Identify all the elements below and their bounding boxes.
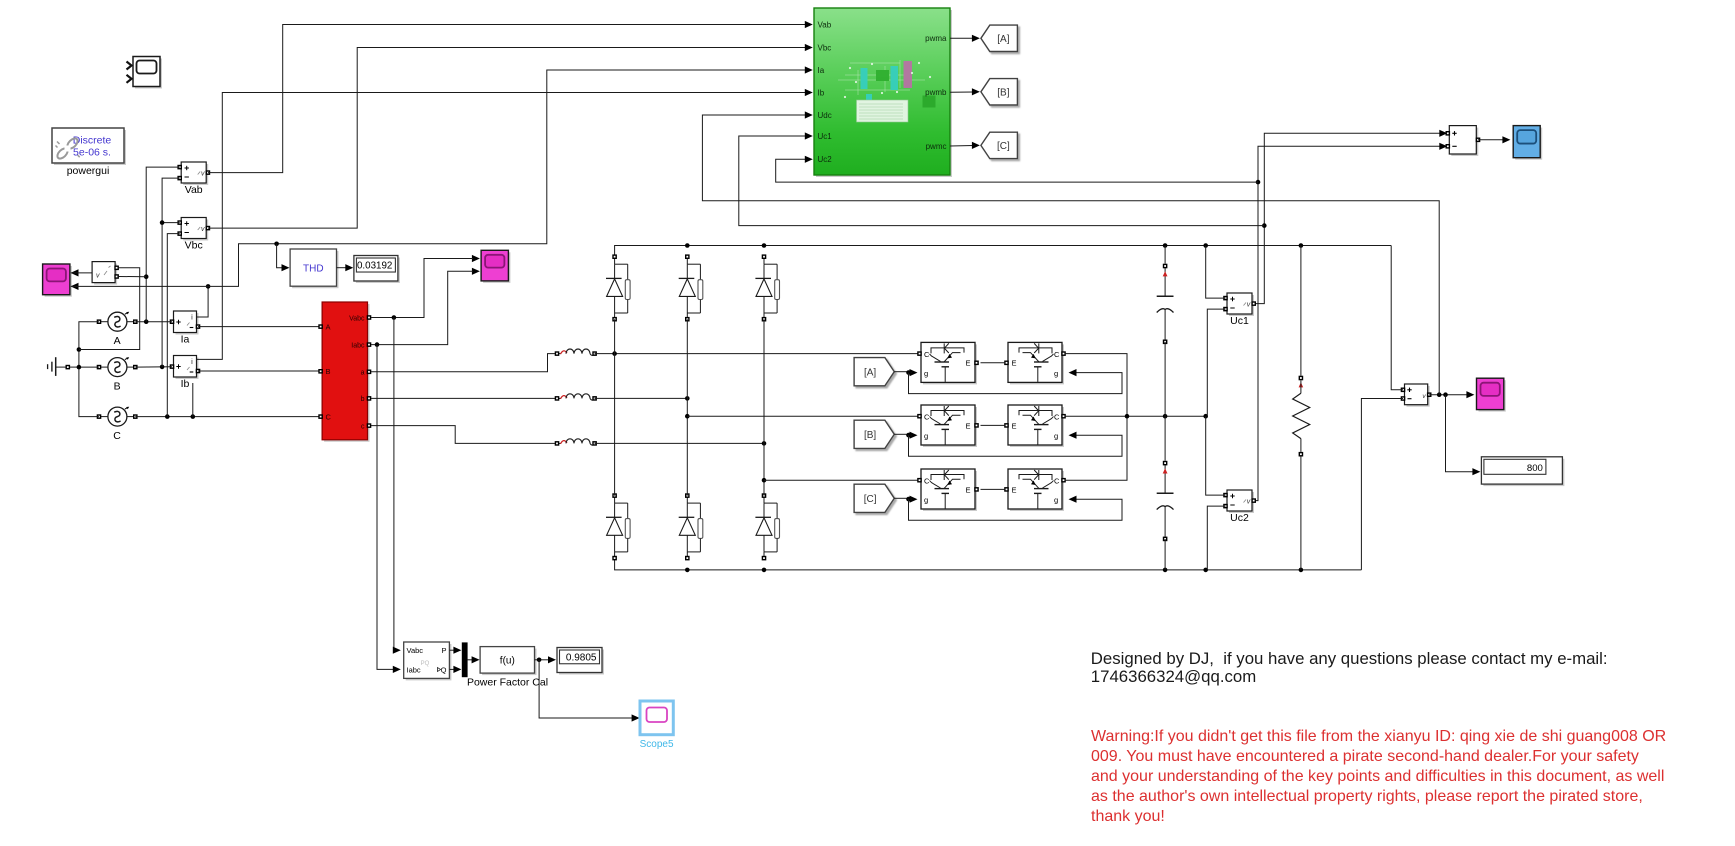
wire Udc signal [1429, 391, 1474, 398]
bridge column 3 wire [762, 319, 767, 495]
wire P to mux [449, 647, 461, 654]
subtract block Uc1-Uc2 [1446, 126, 1481, 156]
wire Udc to display 800 [1446, 395, 1481, 476]
wire pwmb to Goto B [950, 88, 980, 95]
display Udc value 800 [1481, 457, 1564, 486]
Goto tag C [981, 132, 1018, 158]
inductor La [555, 349, 597, 356]
capacitor C1 (upper) [1157, 264, 1174, 344]
svg-text:pwma: pwma [925, 34, 947, 43]
svg-text:g: g [1054, 496, 1058, 505]
Goto tag A [981, 25, 1018, 51]
svg-text:C: C [326, 413, 332, 422]
wire v minus to phase A [119, 276, 146, 278]
wire source A to Ia [135, 319, 172, 324]
svg-text:P: P [441, 646, 446, 655]
svg-text:Ib: Ib [181, 378, 190, 390]
diode D6 bottom (with snubber) [755, 493, 779, 560]
ports Uc1 [1223, 296, 1256, 312]
svg-text:[C]: [C] [997, 141, 1010, 152]
svg-text:C: C [924, 350, 930, 359]
IGBT Q4 (phase B right) [1004, 405, 1066, 447]
wire column 2 to IGBT row B [687, 415, 921, 417]
svg-text:g: g [1054, 369, 1058, 378]
wire Vab minus / Vbc plus to phase B [160, 178, 180, 367]
wire red c to inductor Lc [371, 426, 555, 444]
svg-text:C: C [924, 413, 930, 422]
wire Lb to bridge column 2 [595, 396, 690, 401]
svg-text:powergui: powergui [67, 165, 110, 177]
inductor Lb [555, 394, 597, 401]
capacitor C2 (lower) [1157, 461, 1174, 541]
wire E-E phase C [981, 488, 1006, 490]
svg-text:Warning:If you didn't get this: Warning:If you didn't get this file from… [1091, 728, 1666, 745]
wire Ia signal to scope Va [71, 285, 208, 287]
ports Ib [170, 364, 201, 373]
svg-text:Iabc: Iabc [407, 666, 421, 675]
ground [48, 357, 71, 376]
svg-text:PQ: PQ [421, 661, 430, 667]
wire source B to Ib [135, 365, 172, 370]
Fcn block f(u) [480, 647, 536, 676]
annotation black text [1091, 649, 1608, 686]
wire Q to mux [449, 666, 461, 673]
svg-text:Ia: Ia [181, 334, 190, 346]
wire IGBT row C to midpoint [1065, 416, 1128, 480]
wire Ib signal to controller input Ib [196, 89, 812, 360]
svg-text:[A]: [A] [997, 34, 1009, 45]
svg-text:C: C [924, 477, 930, 486]
wire THD to display [337, 264, 354, 271]
wire to Scope5 [539, 660, 640, 722]
AC source B [97, 357, 138, 376]
svg-text:f(u): f(u) [500, 656, 515, 667]
diode D2 top (with snubber) [679, 254, 703, 321]
AC source C [97, 407, 138, 426]
scope dUc (blue) [1513, 126, 1542, 160]
wire pwma to Goto A [950, 35, 980, 42]
wire v output to scope Va [71, 272, 92, 274]
svg-text:thank you!: thank you! [1091, 808, 1165, 825]
ammeter Ib [174, 356, 199, 380]
neutral bus [77, 322, 99, 417]
svg-text:pwmb: pwmb [925, 88, 947, 97]
svg-text:009. You must have encountered: 009. You must have encountered a pirate … [1091, 748, 1639, 765]
wire Uc2 to controller input Uc2 [776, 156, 1258, 182]
From tag B [854, 420, 894, 448]
wire bus to C1 [1164, 246, 1166, 264]
svg-text:c: c [361, 423, 365, 430]
IGBT Q2 (phase A right) [1004, 342, 1066, 384]
svg-text:E: E [966, 485, 971, 494]
wire gate loop phase A [894, 369, 1122, 394]
DC plus bus [615, 243, 1392, 257]
wire C2 to DC minus bus [1164, 539, 1166, 570]
IGBT Q5 (phase C left) [917, 469, 979, 511]
resistor R load [1293, 246, 1310, 570]
wire E-E phase B [981, 424, 1006, 426]
unconnected input chevron 1 [127, 62, 132, 70]
svg-text:[C]: [C] [864, 494, 877, 505]
ports Vab [177, 165, 210, 181]
wire f(u) to display 0.9805 [535, 656, 557, 663]
wire C1 to midpoint [1164, 342, 1166, 416]
wire Lc to bridge column 3 [595, 441, 767, 446]
wire Ia signal to controller input Ia [208, 66, 813, 286]
svg-text:E: E [966, 421, 971, 430]
red three-phase V-I measurement block [318, 302, 371, 442]
wire mux to f(u) [467, 656, 480, 663]
bridge column 1 wire [614, 319, 616, 495]
wire Ia signal riser [197, 284, 211, 317]
diode D1 top (with snubber) [606, 254, 630, 321]
PQ measurement block [404, 642, 452, 680]
svg-text:pwmc: pwmc [926, 142, 947, 151]
svg-text:Vbc: Vbc [818, 43, 832, 52]
controller subsystem (green) [814, 8, 952, 177]
diode D4 bottom (with snubber) [606, 493, 630, 560]
svg-text:1746366324@qq.com: 1746366324@qq.com [1091, 667, 1256, 686]
ports Vbc [177, 220, 210, 236]
input arrows scope Va [71, 269, 79, 290]
wire midpoint to Uc2 plus [1206, 416, 1226, 495]
wire Uc1 to controller input Uc1 [739, 132, 1265, 225]
wire Uc2 signal (to sum and controller) [1256, 143, 1448, 501]
svg-text:Vbc: Vbc [185, 240, 203, 252]
svg-text:Vab: Vab [185, 184, 203, 196]
Scope5 (highlighted) [640, 701, 673, 735]
wire tap to THD [277, 244, 290, 271]
wire La to bridge column 1 [595, 351, 921, 356]
svg-text:Designed by DJ, if you have a: Designed by DJ, if you have any question… [1091, 649, 1608, 668]
wire red b to inductor Lb [371, 397, 555, 399]
IGBT Q1 (phase A left) [917, 342, 979, 384]
wire IGBT row A to midpoint [1065, 354, 1128, 417]
wire Uc1 signal (to sum and controller) [1256, 130, 1447, 304]
svg-text:v: v [1247, 302, 1251, 309]
wire Udc signal to controller input Udc [702, 111, 1439, 394]
wire Vbc signal to controller input Vbc [208, 44, 813, 228]
DC minus bus [615, 558, 1362, 572]
wire Vbc minus to phase C [167, 234, 179, 417]
wire pwmc to Goto C [950, 142, 980, 149]
AC source A [97, 312, 138, 331]
wire DC plus bus to Udc plus [1391, 246, 1403, 390]
wire E-E phase A [981, 362, 1006, 364]
svg-text:E: E [1012, 485, 1017, 494]
voltmeter Vab [181, 162, 208, 185]
diode D3 top (with snubber) [755, 254, 779, 321]
svg-text:v: v [1247, 499, 1251, 506]
wire sum to blue scope [1478, 136, 1510, 143]
Goto tag B [981, 79, 1018, 105]
display power factor 0.9805 [557, 648, 604, 675]
voltmeter Udc [1401, 384, 1432, 407]
voltmeter Uc1 [1227, 293, 1254, 316]
wire Vabc riser to PQ block [393, 318, 401, 654]
wire column 3 to IGBT row C [764, 479, 921, 481]
svg-text:Vabc: Vabc [407, 646, 424, 655]
svg-text:C: C [113, 430, 121, 442]
powergui block [52, 128, 126, 165]
svg-text:Vabc: Vabc [349, 315, 365, 322]
svg-text:[B]: [B] [864, 430, 876, 441]
svg-text:B: B [114, 381, 121, 393]
svg-text:Udc: Udc [818, 111, 832, 120]
ammeter Ia [174, 311, 199, 335]
wire Iabc riser to PQ block [377, 345, 401, 673]
svg-text:Ib: Ib [818, 88, 825, 97]
svg-text:Uc2: Uc2 [818, 155, 833, 164]
wire Ia out to red block input A [198, 326, 319, 328]
voltmeter Uc2 [1227, 490, 1254, 513]
svg-text:0.03192: 0.03192 [357, 261, 392, 272]
wire v plus to neutral bus [79, 268, 140, 350]
svg-text:Iabc: Iabc [351, 342, 365, 349]
wire midpoint to C2 [1164, 416, 1166, 461]
wire gate loop phase C [894, 496, 1122, 521]
svg-text:C: C [1054, 413, 1060, 422]
svg-text:C: C [1054, 350, 1060, 359]
svg-text:E: E [1012, 359, 1017, 368]
svg-text:g: g [924, 496, 928, 505]
svg-text:B: B [326, 367, 331, 376]
inductor Lc [555, 439, 597, 446]
From tag C [854, 484, 894, 512]
wire bus to Uc1 plus [1206, 246, 1226, 299]
From tag A [854, 358, 894, 386]
svg-text:A: A [114, 335, 121, 347]
unconnected input chevron 2 [127, 75, 132, 83]
scope Vabc/Iabc (magenta) [481, 250, 510, 283]
svg-text:and your understanding of the: and your understanding of the key points… [1091, 768, 1664, 785]
diode D5 bottom (with snubber) [679, 493, 703, 560]
unconnected scope block [133, 57, 162, 89]
wire Iabc to scope [371, 271, 473, 347]
wire mystery stub phase C [192, 383, 194, 417]
svg-text:Scope5: Scope5 [640, 739, 674, 750]
svg-text:A: A [326, 323, 331, 332]
wire Uc2 minus to DC minus bus [1207, 506, 1225, 570]
wire DC minus bus to Udc minus [1361, 399, 1403, 570]
svg-text:Ia: Ia [818, 66, 825, 75]
ports Uc2 [1223, 493, 1256, 509]
svg-text:E: E [966, 359, 971, 368]
wire Vabc to scope [371, 259, 473, 320]
svg-text:g: g [924, 432, 928, 441]
svg-text:as the author's own intellectu: as the author's own intellectual propert… [1091, 788, 1643, 805]
svg-text:C: C [1054, 477, 1060, 486]
svg-text:Uc1: Uc1 [1230, 315, 1249, 327]
display THD value 0.03192 [354, 256, 400, 284]
annotation red warning text [1091, 728, 1666, 825]
wire Ib out to red block input B [198, 370, 319, 372]
svg-text:g: g [1054, 432, 1058, 441]
wire red a to inductor La [371, 354, 555, 372]
svg-text:[B]: [B] [997, 88, 1009, 99]
svg-text:a: a [361, 370, 365, 377]
svg-text:Q: Q [441, 666, 447, 675]
svg-text:[A]: [A] [864, 368, 876, 379]
ports Ia [170, 319, 201, 329]
svg-text:v: v [201, 226, 205, 233]
wire Vab signal to controller input Vab [208, 21, 813, 173]
svg-text:Uc2: Uc2 [1230, 512, 1249, 524]
svg-text:Vab: Vab [818, 20, 832, 29]
svg-text:0.9805: 0.9805 [566, 652, 597, 663]
svg-text:THD: THD [303, 264, 324, 275]
input arrows scope Vabc/Iabc [472, 255, 480, 275]
THD block [290, 249, 338, 288]
svg-text:Power Factor Cal: Power Factor Cal [467, 677, 548, 689]
scope Udc (magenta) [1477, 378, 1506, 411]
svg-text:v: v [201, 171, 205, 178]
IGBT Q3 (phase B left) [917, 405, 979, 447]
svg-text:b: b [361, 396, 365, 403]
svg-text:v: v [96, 273, 100, 280]
svg-text:800: 800 [1527, 463, 1543, 474]
wire gate loop phase B [894, 432, 1122, 457]
svg-text:Uc1: Uc1 [818, 132, 833, 141]
midpoint neutral wire [1065, 414, 1208, 419]
wire ground to neutral bus [70, 366, 79, 368]
wire source C to red block input C [135, 414, 319, 419]
mux [462, 643, 467, 677]
svg-text:g: g [924, 369, 928, 378]
IGBT Q6 (phase C right) [1004, 469, 1066, 511]
svg-text:E: E [1012, 421, 1017, 430]
voltmeter v (flipped) [92, 262, 119, 285]
voltmeter Vbc [181, 218, 208, 241]
bridge column 2 wire [685, 319, 690, 495]
wire Vab plus to phase A [144, 167, 180, 322]
wire Uc1 minus to midpoint [1207, 309, 1225, 416]
scope Va (magenta, flipped) [43, 264, 72, 297]
